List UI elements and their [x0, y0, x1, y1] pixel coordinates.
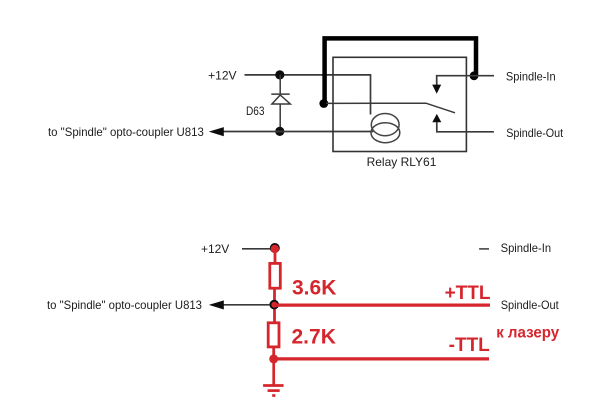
red -TTL bus wire: [275, 357, 489, 360]
svg-text:Spindle-Out: Spindle-Out: [506, 126, 564, 140]
switch common wire: [326, 103, 455, 113]
node jumper left: [319, 99, 328, 108]
svg-text:to "Spindle" opto-coupler U813: to "Spindle" opto-coupler U813: [47, 298, 202, 312]
wire R1 to R2: [273, 290, 276, 322]
svg-text:Spindle-In: Spindle-In: [501, 241, 551, 255]
svg-text:Spindle-Out: Spindle-Out: [501, 298, 560, 312]
svg-text:Relay RLY61: Relay RLY61: [367, 155, 437, 169]
svg-text:+12V: +12V: [201, 242, 229, 256]
svg-text:-TTL: -TTL: [449, 335, 491, 356]
node +TTL junction black under red: [269, 300, 279, 310]
wire +12V feed to relay coil: [245, 75, 371, 115]
resistor R1 3.6K: [270, 263, 281, 288]
node jumper right / Spindle-In: [470, 71, 479, 80]
legend dash Spindle-In: [479, 248, 489, 250]
svg-text:Spindle-In: Spindle-In: [506, 69, 556, 83]
svg-text:to "Spindle" opto-coupler U813: to "Spindle" opto-coupler U813: [48, 125, 204, 139]
wire R2 to ground node: [272, 348, 275, 362]
relay coil: [371, 114, 400, 143]
relay box: [333, 57, 466, 151]
node -TTL junction: [269, 354, 278, 363]
svg-text:D63: D63: [246, 104, 265, 118]
svg-text:+TTL: +TTL: [445, 283, 491, 304]
thick jumper wire: [325, 38, 476, 103]
wire to opto-coupler (bottom) with arrowhead: [209, 300, 270, 309]
wire to opto-coupler (top) with arrowhead: [209, 127, 374, 136]
ground: [263, 361, 284, 396]
Spindle-Out wire with up arrow: [432, 114, 494, 132]
Spindle-In wire with down arrow: [432, 76, 494, 94]
resistor R2 2.7K: [268, 323, 279, 347]
node +12V (bottom) black under red: [270, 243, 280, 253]
svg-text:3.6K: 3.6K: [292, 276, 336, 299]
node +12V / diode junction: [275, 70, 284, 79]
node diode / opto-coupler junction: [275, 127, 284, 136]
red +TTL bus wire: [276, 304, 490, 307]
diode D63: [271, 75, 290, 131]
svg-text:+12V: +12V: [208, 69, 236, 83]
svg-text:к лазеру: к лазеру: [496, 325, 559, 342]
wire +12V (bottom): [242, 248, 271, 250]
svg-text:2.7K: 2.7K: [292, 326, 336, 349]
wire node to R1: [274, 250, 277, 263]
